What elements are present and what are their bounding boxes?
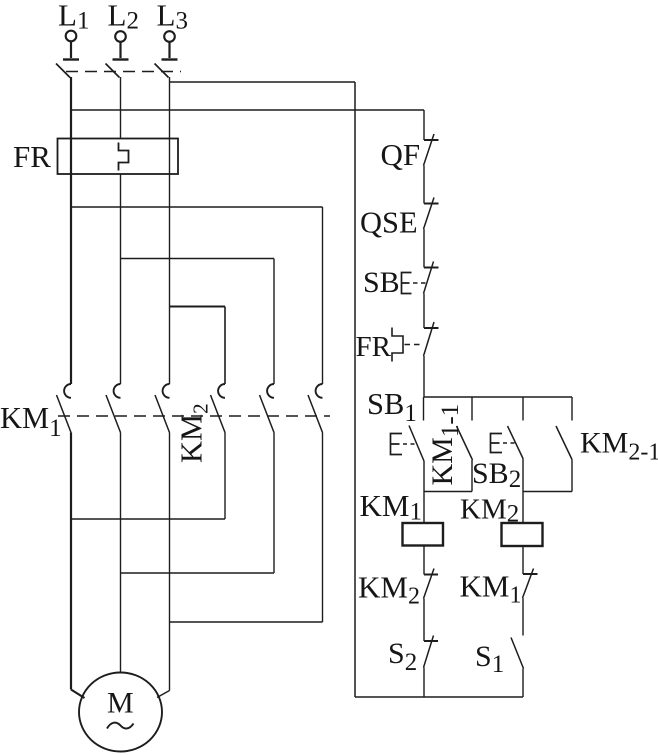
wire KM2 column 3 lower [322, 433, 324, 623]
wire phase C upper column [169, 77, 171, 384]
wire L2 terminal stem [119, 42, 121, 58]
wire KM2 coil to KM1 NC contact [522, 546, 524, 574]
wire motor lead left diagonal [71, 690, 85, 699]
wire L3 feed to control rail [170, 81, 356, 83]
svg-text:KM1: KM1 [360, 488, 422, 526]
svg-text:QSE: QSE [360, 206, 418, 240]
switch S2 blade [424, 636, 434, 668]
wire bridge KM2 column 1 to phase A [71, 518, 225, 520]
svg-text:FR: FR [356, 331, 392, 363]
pushbutton SB1 actuator link (dashed) [403, 443, 416, 445]
disconnect switch QS pole 2 fixed contact [113, 58, 129, 60]
wire bridge L1 to KM2 column 3 [71, 206, 323, 208]
wire control chain segment above QF [423, 110, 425, 140]
wire control chain SB to FR [423, 294, 425, 329]
wire KM2-1 branch stub [571, 397, 573, 421]
contactor KM2 main contact pole 2 blade [260, 395, 275, 433]
wire control chain FR to top bus [423, 356, 425, 397]
wire SB2 branch stub [522, 397, 524, 421]
wire phase B upper column [120, 77, 122, 139]
svg-text:KM2: KM2 [175, 403, 213, 463]
wire KM1 coil to KM2 NC contact [423, 546, 425, 575]
wire KM2-1 lower [571, 460, 573, 492]
pushbutton SB1 blade [409, 426, 424, 462]
disconnect switch QS pole 2 blade [106, 64, 120, 78]
wire KM2 column 1 lower [224, 433, 226, 520]
contactor KM2 main contact pole 1 blade [211, 395, 226, 433]
wire bridge L3 to KM2 column 1 [170, 306, 226, 308]
wire control chain QF to QSE [423, 166, 425, 204]
wire KM2 NC to S2 [423, 599, 425, 642]
contact KM2 NC tick [424, 574, 438, 576]
wire S1 to bottom bus [522, 669, 524, 698]
svg-text:KM2-1: KM2-1 [580, 427, 658, 466]
pushbutton SB blade [424, 262, 434, 294]
svg-text:L3: L3 [157, 0, 188, 35]
disconnect switch QS pole 1 fixed contact [63, 58, 79, 60]
thermal contact FR blade [424, 322, 435, 356]
contactor KM2 main contact pole 3 blade [308, 395, 323, 433]
svg-text:M: M [107, 687, 134, 720]
terminal L2 [115, 31, 126, 42]
wire phase A upper column [70, 77, 72, 384]
breaker QF fixed contact tick [424, 139, 439, 141]
svg-text:SB1: SB1 [367, 387, 417, 427]
contactor KM1 main contact pole 2 blade [106, 395, 121, 433]
wire phase B lower column [120, 433, 122, 673]
pushbutton SB actuator link (dashed) [413, 282, 426, 284]
contactor KM2 main contact pole 3 arc [316, 384, 323, 398]
contactor KM2 main contact pole 2 arc [267, 384, 274, 398]
contact KM2-1 blade [556, 426, 572, 460]
switch QSE fixed contact tick [424, 203, 439, 205]
wire control top bus [424, 396, 572, 398]
contactor KM1 main contact pole 1 blade [57, 395, 72, 433]
wire phase A lower column [70, 433, 72, 690]
wire bridge KM2 column 3 to phase C [170, 621, 323, 623]
svg-text:KM1: KM1 [0, 401, 62, 442]
wire control chain QSE to SB [423, 229, 425, 268]
thermal contact FR link (dashed) [405, 344, 422, 346]
contact KM1 NC blade [523, 569, 534, 599]
svg-text:L1: L1 [58, 0, 89, 35]
coil KM1 [403, 523, 444, 546]
pushbutton SB2 actuator link (dashed) [503, 442, 515, 444]
wire motor lead right diagonal [157, 691, 170, 698]
switch S2 tick [424, 640, 438, 642]
disconnect switch QS pole 3 fixed contact [162, 58, 178, 60]
wire KM1-1 join to KM1 coil branch [424, 491, 472, 493]
thermal contact FR fixed contact tick [424, 327, 439, 329]
terminal L1 [66, 31, 77, 42]
terminal L3 [164, 31, 175, 42]
svg-text:SB2: SB2 [472, 457, 521, 493]
svg-text:KM1: KM1 [460, 569, 522, 609]
wire L3 terminal stem [168, 42, 170, 58]
disconnect switch QS pole 1 blade [56, 64, 70, 78]
wire KM1-1 lower [471, 460, 473, 492]
motor M circle [79, 673, 162, 752]
svg-text:S1: S1 [475, 640, 504, 678]
wire SB1 to KM1 coil [423, 461, 425, 522]
svg-text:FR: FR [13, 139, 51, 174]
svg-text:SB: SB [363, 266, 400, 299]
contactor KM2 main contact pole 1 arc [218, 384, 225, 398]
wire phase C lower column [169, 433, 171, 691]
svg-text:KM1-1: KM1-1 [426, 404, 464, 486]
main contacts linkage (dashed) [58, 415, 330, 417]
switch QSE blade [424, 198, 435, 230]
wire SB1 branch stub [423, 397, 425, 421]
contactor KM1 main contact pole 1 arc [64, 384, 71, 398]
wire KM2 column 1 upper [224, 307, 226, 385]
contactor KM1 main contact pole 3 arc [163, 384, 170, 398]
wire KM2-1 join to KM2 coil branch [523, 491, 572, 493]
wire KM2 column 2 lower [273, 433, 275, 574]
wire control bottom bus [355, 696, 523, 698]
wire L1 terminal stem [70, 42, 72, 59]
contactor KM1 main contact pole 2 arc [114, 384, 121, 398]
wire KM1-1 branch stub [471, 397, 473, 421]
svg-text:QF: QF [381, 137, 421, 172]
pushbutton SB fixed contact tick [424, 267, 439, 269]
wire KM1 NC to S1 [522, 598, 524, 636]
pushbutton SB2 blade [508, 426, 524, 459]
wire KM2 column 3 upper [322, 207, 324, 384]
disconnect switch QS linkage (dashed) [66, 71, 181, 73]
svg-text:KM2: KM2 [358, 570, 420, 610]
motor AC tilde [107, 723, 134, 729]
wire L1 feed to control chain [71, 109, 424, 111]
contact KM2 NC blade [424, 569, 435, 599]
wire phase B through FR box to contacts [120, 174, 122, 384]
breaker QF blade [424, 134, 435, 166]
svg-text:S2: S2 [388, 637, 417, 676]
thermal contact FR hook symbol [392, 328, 403, 362]
switch S1 blade [511, 638, 524, 669]
pushbutton SB1 actuator E [391, 434, 403, 455]
coil KM2 [502, 523, 543, 546]
wire bridge KM2 column 2 to phase B [121, 572, 275, 574]
contactor KM1 main contact pole 3 blade [155, 395, 170, 433]
wire SB2 to KM2 coil [522, 459, 524, 523]
contact KM1-1 blade [457, 426, 473, 460]
wire control circuit left rail [354, 82, 356, 697]
svg-text:L2: L2 [108, 0, 139, 35]
pushbutton SB2 actuator E [491, 434, 503, 453]
wire S2 to bottom bus [423, 668, 425, 698]
disconnect switch QS pole 3 blade [155, 64, 169, 78]
wire KM2 column 2 upper [273, 259, 275, 385]
thermal relay FR heater box [58, 139, 179, 175]
pushbutton SB actuator E [402, 273, 412, 294]
contact KM1 NC tick [523, 573, 538, 575]
wire bridge L2 to KM2 column 2 [121, 258, 275, 260]
thermal relay FR heater element [119, 143, 129, 171]
